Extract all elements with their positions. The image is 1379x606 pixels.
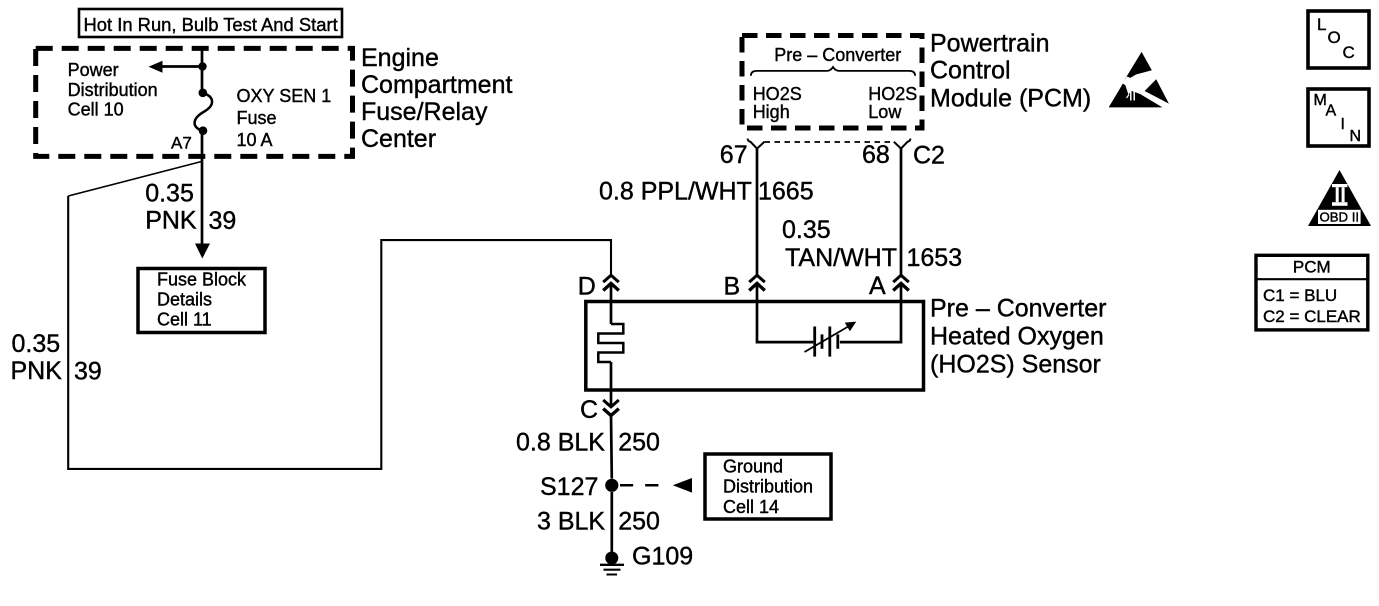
svg-text:B: B: [724, 273, 741, 301]
PCM pin 68 fork: [894, 139, 911, 149]
wire label 0.35 PNK 39: [145, 179, 236, 235]
wire S127 to G109: [610, 492, 613, 552]
svg-text:O: O: [1328, 28, 1341, 47]
svg-text:A: A: [869, 272, 886, 300]
svg-text:High: High: [753, 102, 790, 122]
svg-text:I: I: [1341, 116, 1345, 133]
svg-text:Powertrain: Powertrain: [930, 30, 1050, 58]
Pre-Converter Heated Oxygen (HO2S) Sensor label: [930, 295, 1106, 379]
svg-text:250: 250: [618, 429, 660, 457]
Engine Compartment Fuse/Relay Center label: [361, 44, 512, 153]
svg-text:PNK: PNK: [145, 207, 197, 235]
svg-text:Pre – Converter: Pre – Converter: [774, 45, 901, 65]
wire from Hot In Run feed down to junction: [201, 46, 204, 93]
svg-text:10 A: 10 A: [237, 130, 273, 150]
svg-text:Hot In Run, Bulb Test And Star: Hot In Run, Bulb Test And Start: [84, 14, 338, 35]
svg-text:D: D: [578, 273, 596, 301]
svg-text:Heated Oxygen: Heated Oxygen: [930, 323, 1104, 351]
svg-text:Module (PCM): Module (PCM): [930, 85, 1091, 113]
dashed reference arrow to Ground Distribution: [620, 478, 692, 493]
wire PCM 68 to HO2S pin A: [900, 149, 903, 276]
wire label 0.35 PNK 39 (left run): [11, 330, 102, 386]
svg-text:(HO2S) Sensor: (HO2S) Sensor: [930, 351, 1101, 379]
PCM pin 67 fork: [748, 139, 765, 149]
ground G109: [600, 552, 624, 575]
svg-text:0.35: 0.35: [145, 179, 194, 207]
svg-text:C2: C2: [913, 142, 945, 170]
Powertrain Control Module dashed box: [742, 36, 922, 129]
svg-text:OBD II: OBD II: [1320, 210, 1360, 225]
svg-text:250: 250: [618, 508, 660, 536]
svg-text:A7: A7: [171, 133, 192, 152]
svg-text:S127: S127: [540, 473, 598, 501]
svg-text:Fuse Block: Fuse Block: [157, 270, 247, 290]
svg-text:Ground: Ground: [723, 457, 783, 477]
Ground Distribution Cell 14 box: [705, 454, 831, 519]
PCM connector color table: [1256, 255, 1368, 330]
svg-text:Details: Details: [157, 290, 212, 310]
wire pin A7 down to Fuse Block Details: [195, 131, 210, 259]
Engine Compartment Fuse/Relay Center dashed box: [36, 48, 353, 156]
fuse OXY SEN 1 10 A: [195, 89, 212, 136]
svg-text:C: C: [580, 396, 598, 424]
LOC legend box: [1308, 11, 1369, 68]
svg-text:Cell 14: Cell 14: [723, 497, 779, 517]
svg-text:Cell 11: Cell 11: [157, 310, 212, 330]
svg-text:TAN/WHT: TAN/WHT: [785, 244, 897, 272]
Powertrain Control Module (PCM) label: [930, 30, 1091, 113]
label box Hot In Run, Bulb Test And Start: [79, 9, 342, 37]
svg-text:Pre – Converter: Pre – Converter: [930, 295, 1106, 323]
svg-text:39: 39: [74, 358, 102, 386]
Fuse Block Details Cell 11 box: [138, 269, 265, 333]
svg-text:C: C: [1343, 43, 1355, 62]
wire heater to pin C: [610, 362, 613, 407]
ESD sensitivity symbol: [1109, 52, 1169, 108]
wire label 0.8 PPL/WHT 1665: [599, 178, 814, 206]
variable oxygen sensing cell: [805, 322, 857, 357]
svg-text:Low: Low: [868, 102, 902, 122]
connector chevrons pin A: [893, 275, 909, 290]
svg-text:Center: Center: [361, 125, 436, 153]
svg-text:G109: G109: [632, 543, 693, 571]
svg-text:C1 = BLU: C1 = BLU: [1263, 286, 1337, 305]
svg-text:0.8 BLK: 0.8 BLK: [516, 429, 605, 457]
arrow to Power Distribution: [149, 61, 203, 73]
OBD II triangle badge: [1308, 170, 1371, 226]
svg-text:L: L: [1317, 15, 1326, 34]
connector chevrons pin D: [603, 275, 619, 290]
OXY SEN 1 Fuse 10 A label: [237, 86, 332, 150]
wire PCM 67 to HO2S pin B: [756, 149, 759, 276]
svg-text:Fuse: Fuse: [237, 108, 277, 128]
svg-text:Fuse/Relay: Fuse/Relay: [361, 98, 488, 126]
svg-text:OXY SEN 1: OXY SEN 1: [237, 86, 332, 106]
svg-text:Distribution: Distribution: [723, 477, 813, 497]
svg-text:N: N: [1350, 128, 1362, 145]
svg-text:Cell 10: Cell 10: [68, 100, 124, 120]
svg-text:PNK: PNK: [11, 357, 63, 385]
svg-text:3 BLK: 3 BLK: [537, 508, 605, 536]
wire label 0.8 BLK 250: [516, 429, 660, 457]
wire label 0.35 TAN/WHT 1653: [782, 216, 962, 272]
svg-text:0.35: 0.35: [12, 330, 61, 358]
svg-text:HO2S: HO2S: [753, 84, 802, 104]
Power Distribution Cell 10 label: [68, 60, 158, 120]
wire label 3 BLK 250: [537, 508, 660, 536]
svg-text:Engine: Engine: [361, 44, 439, 72]
svg-text:Compartment: Compartment: [361, 71, 512, 99]
svg-text:1665: 1665: [758, 178, 814, 206]
svg-text:68: 68: [862, 141, 890, 169]
HO2S sensor box: [586, 302, 924, 391]
wire pin A into sensor cell: [840, 283, 901, 342]
brace under Pre-Converter: [751, 67, 915, 76]
wire pin C to splice S127: [610, 416, 613, 479]
connector chevrons pin C: [603, 400, 619, 416]
wire pin B into sensor cell: [757, 283, 813, 342]
svg-text:Distribution: Distribution: [68, 80, 158, 100]
svg-text:A: A: [1326, 103, 1337, 120]
HO2S High label: [753, 84, 802, 122]
connector chevrons pin B: [749, 275, 765, 290]
junction node dot: [198, 62, 206, 70]
wire branch from A7 to HO2S heater pin D: [68, 162, 611, 469]
svg-text:0.35: 0.35: [782, 216, 831, 244]
svg-text:Power: Power: [68, 60, 119, 80]
HO2S Low label: [868, 84, 917, 122]
MAIN legend box: [1308, 89, 1369, 146]
svg-text:HO2S: HO2S: [868, 84, 917, 104]
svg-text:67: 67: [720, 141, 748, 169]
splice S127: [605, 479, 618, 492]
svg-text:C2 = CLEAR: C2 = CLEAR: [1263, 307, 1361, 326]
svg-text:1653: 1653: [907, 244, 963, 272]
svg-text:PCM: PCM: [1293, 258, 1331, 277]
svg-text:Control: Control: [930, 57, 1011, 85]
wire pin D into heater: [610, 283, 613, 324]
PCM connector C2 dashed line: [765, 141, 894, 143]
heater element: [598, 324, 623, 362]
svg-text:0.8 PPL/WHT: 0.8 PPL/WHT: [599, 178, 752, 206]
svg-text:39: 39: [209, 207, 237, 235]
